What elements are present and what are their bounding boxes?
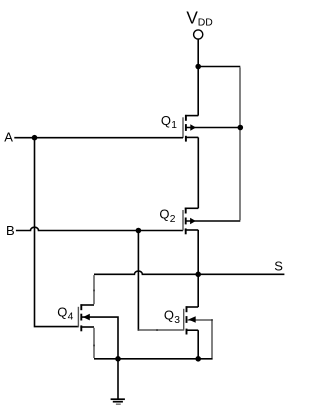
wire B vertical down to Q3 gate [137, 231, 140, 330]
svg-text:Q: Q [164, 308, 174, 323]
svg-text:B: B [6, 223, 15, 238]
svg-text:DD: DD [198, 17, 213, 28]
wire bottom rail [94, 358, 213, 360]
node B branch dot [136, 228, 142, 234]
svg-text:V: V [186, 7, 198, 27]
wire Q3 body right and down to source rail (arrow pointing left) [187, 316, 213, 358]
wire Q3 drain up to S node [197, 274, 199, 307]
wire top branch right [198, 66, 240, 68]
wire Q1 body to right branch (arrow pointing right) [187, 124, 241, 131]
wire VDD stem to junction [197, 39, 199, 66]
label Q3 [164, 308, 180, 326]
wire Q2 source down to output node [197, 230, 199, 274]
label Q4 [57, 304, 73, 322]
svg-text:S: S [274, 258, 283, 273]
svg-text:A: A [4, 129, 13, 144]
wire Q1 source to Q2 drain [197, 137, 199, 208]
label Q2 [159, 207, 175, 225]
label Q1 [161, 113, 177, 131]
ground [111, 399, 125, 404]
transistor Q2 [183, 208, 198, 235]
svg-text:Q: Q [161, 113, 171, 128]
wire junction down to Q1 drain [197, 67, 199, 116]
wire Q4 body right and down to source rail (arrow pointing left) [82, 314, 118, 359]
node A branch dot [32, 135, 38, 141]
VDD terminal circle [194, 30, 203, 39]
svg-text:2: 2 [170, 214, 176, 225]
wire Q2 body to right branch (arrow pointing right) [186, 218, 240, 225]
wire Q4 source down to ground rail [93, 328, 95, 358]
transistor Q1 [183, 115, 198, 142]
wire input A horizontal [14, 137, 183, 139]
wire right vertical branch [239, 67, 241, 220]
wire Q3 gate horizontal [138, 329, 183, 331]
wire A vertical down to Q4 gate [35, 138, 79, 327]
node Q3 source rail dot [195, 356, 201, 362]
svg-text:Q: Q [57, 304, 67, 319]
wire Q4 drain up to S line [93, 275, 95, 304]
svg-text:3: 3 [174, 315, 180, 326]
node ground junction dot [115, 356, 121, 362]
wire input B horizontal with hop over A branch [16, 227, 183, 230]
wire Q3 source down to bottom rail [197, 330, 199, 359]
svg-text:4: 4 [68, 312, 74, 323]
VDD label [186, 7, 212, 28]
wire output S horizontal with hop over B branch [94, 271, 284, 274]
svg-text:1: 1 [171, 120, 177, 131]
svg-text:Q: Q [159, 207, 169, 222]
transistor Q3 [184, 306, 199, 334]
node VDD junction dot [195, 64, 201, 70]
node output S junction dot [195, 272, 201, 278]
wire ground stem [117, 359, 119, 399]
transistor Q4 [78, 304, 94, 331]
node Q1 body junction dot [238, 125, 244, 131]
